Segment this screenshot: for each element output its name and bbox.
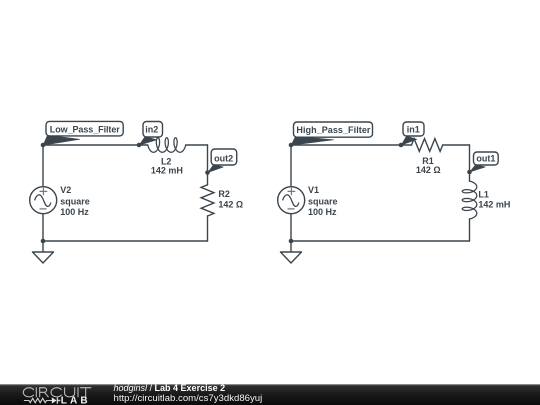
wire: right circuit top rail [291,144,470,146]
svg-text:in1: in1 [407,124,420,134]
svg-text:142 mH: 142 mH [478,199,510,209]
ground (left) [33,241,54,263]
label R1 value [416,156,441,175]
flag High_Pass_Filter [291,122,373,145]
svg-text:square: square [308,196,338,206]
svg-text:Low_Pass_Filter: Low_Pass_Filter [50,125,120,135]
svg-text:square: square [60,196,90,206]
wire: left circuit left rail upper [42,145,44,187]
node in1 junction dot [399,143,404,148]
resistor R2 [201,185,214,216]
label L1 value [478,190,510,210]
node: junction dot top-left right circuit [289,143,294,148]
label R2 value [218,189,243,210]
footer bar [0,384,540,405]
wire: left circuit top rail [43,144,208,146]
label V2 value [60,185,90,217]
node out1 junction dot [467,170,472,175]
svg-text:in2: in2 [145,125,158,135]
wire: right circuit left rail upper [290,145,292,187]
svg-text:http://circuitlab.com/cs7y3dkd: http://circuitlab.com/cs7y3dkd86yuj [114,393,263,404]
svg-text:V2: V2 [60,185,71,195]
node: junction dot bottom-left right circuit [289,239,294,244]
flag out2 [208,149,237,173]
svg-text:100 Hz: 100 Hz [308,207,337,217]
resistor R1 [412,139,443,152]
wire: right circuit left rail lower [290,214,292,241]
node in2 junction dot [137,143,142,148]
svg-text:hodginsl / Lab 4 Exercise 2: hodginsl / Lab 4 Exercise 2 [114,383,226,393]
svg-text:142 mH: 142 mH [151,166,183,176]
inductor L2 [148,138,186,153]
svg-text:High_Pass_Filter: High_Pass_Filter [296,125,370,135]
label V1 value [308,185,338,217]
flag Low_Pass_Filter [43,121,123,145]
wire: left circuit right rail lower [207,216,209,241]
node: junction dot top-left left circuit [41,143,46,148]
svg-text:V1: V1 [308,185,319,195]
wire: right circuit right rail upper [469,145,471,181]
svg-text:142 Ω: 142 Ω [218,200,243,210]
flag in2 [139,122,163,146]
flag in1 [401,122,424,145]
wire: left circuit left rail lower [42,214,44,241]
flag out1 [470,152,499,172]
CircuitLab logo wordmark CIRCUIT (drawn) [23,388,91,397]
svg-text:L1: L1 [478,190,489,200]
svg-text:LAB: LAB [61,395,91,405]
ground (right) [281,241,302,263]
svg-text:R2: R2 [218,189,230,199]
svg-text:142 Ω: 142 Ω [416,165,441,175]
node out2 junction dot [205,170,210,175]
wire: left circuit right rail upper [207,145,209,185]
svg-text:100 Hz: 100 Hz [60,207,89,217]
svg-text:out2: out2 [214,154,233,164]
voltage source V2 [30,187,57,214]
wire: right circuit bottom rail [291,240,470,242]
svg-text:out1: out1 [476,153,495,163]
wire: left circuit bottom rail [43,240,208,242]
CircuitLab logo circuit line: wire, resistor, diode [24,397,60,403]
node: junction dot bottom-left left circuit [41,239,46,244]
voltage source V1 [278,187,305,214]
wire: right circuit right rail lower [469,219,471,241]
label L2 value [151,156,183,175]
inductor L1 [462,181,477,219]
